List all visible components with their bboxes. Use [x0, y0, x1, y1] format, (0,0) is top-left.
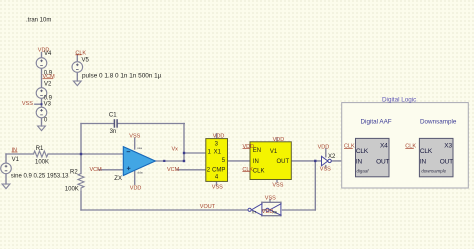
svg-text:VSS: VSS	[212, 185, 223, 191]
svg-text:VCM: VCM	[167, 167, 180, 173]
svg-text:X7: X7	[252, 211, 257, 215]
svg-text:VCM: VCM	[90, 167, 103, 173]
svg-text:ssa: ssa	[137, 146, 142, 150]
svg-text:CLK: CLK	[356, 148, 369, 155]
svg-text:0.9: 0.9	[44, 71, 53, 77]
svg-text:CLK: CLK	[405, 144, 416, 150]
svg-text:X6: X6	[272, 211, 277, 215]
svg-text:CLK: CLK	[242, 167, 253, 173]
svg-text:IN: IN	[253, 159, 259, 165]
svg-text:Vx: Vx	[172, 146, 179, 152]
svg-text:downsample: downsample	[421, 168, 446, 173]
svg-text:X2: X2	[328, 154, 336, 160]
svg-text:OUT: OUT	[277, 159, 290, 165]
svg-text:digaaf: digaaf	[357, 168, 370, 173]
svg-text:OUT: OUT	[376, 158, 389, 165]
svg-text:100K: 100K	[65, 186, 79, 192]
svg-text:X4: X4	[380, 142, 388, 149]
svg-text:pulse 0 1.8 0 1n 1n 500n 1µ: pulse 0 1.8 0 1n 1n 500n 1µ	[82, 72, 162, 79]
svg-text:R1: R1	[36, 146, 44, 152]
svg-text:VDD: VDD	[318, 144, 330, 150]
svg-text:OUT: OUT	[440, 158, 453, 165]
svg-text:VSS: VSS	[265, 196, 276, 202]
svg-text:IN: IN	[420, 158, 427, 165]
svg-text:Digital Logic: Digital Logic	[382, 97, 416, 104]
svg-text:Digital AAF: Digital AAF	[361, 119, 392, 126]
svg-text:VDD: VDD	[243, 144, 255, 150]
svg-text:sine 0.9 0.25 1953.13: sine 0.9 0.25 1953.13	[11, 173, 69, 179]
svg-text:X3: X3	[444, 142, 452, 149]
svg-text:3n: 3n	[110, 129, 117, 135]
svg-text:VDD: VDD	[130, 186, 142, 192]
svg-text:CLK: CLK	[344, 144, 355, 150]
svg-text:.tran 10m: .tran 10m	[26, 18, 51, 24]
svg-text:V1: V1	[270, 149, 278, 155]
svg-text:CMP: CMP	[212, 167, 225, 173]
svg-text:C1: C1	[109, 112, 117, 118]
svg-text:V5: V5	[82, 58, 90, 64]
svg-text:dda: dda	[138, 171, 143, 175]
svg-text:X1: X1	[214, 149, 222, 155]
svg-text:V1: V1	[12, 157, 20, 163]
svg-text:VSS: VSS	[129, 133, 140, 139]
svg-text:VDD: VDD	[273, 137, 285, 143]
svg-text:CLK: CLK	[420, 148, 433, 155]
svg-text:IN: IN	[12, 147, 18, 153]
svg-text:V3: V3	[44, 101, 52, 107]
svg-text:VDD: VDD	[213, 133, 225, 139]
svg-text:100K: 100K	[35, 160, 49, 166]
svg-text:Downsample: Downsample	[420, 119, 457, 126]
svg-text:V4: V4	[44, 51, 52, 57]
svg-text:VSS: VSS	[272, 183, 283, 189]
svg-text:VOUT: VOUT	[200, 204, 216, 210]
svg-text:R2: R2	[70, 169, 78, 175]
svg-text:VSS: VSS	[22, 101, 33, 107]
svg-text:VSS: VSS	[320, 166, 331, 172]
svg-text:ZX: ZX	[114, 176, 122, 182]
svg-text:IN: IN	[356, 158, 363, 165]
svg-text:CLK: CLK	[253, 168, 265, 174]
svg-text:CLK: CLK	[75, 50, 86, 56]
svg-text:V2: V2	[44, 81, 52, 87]
